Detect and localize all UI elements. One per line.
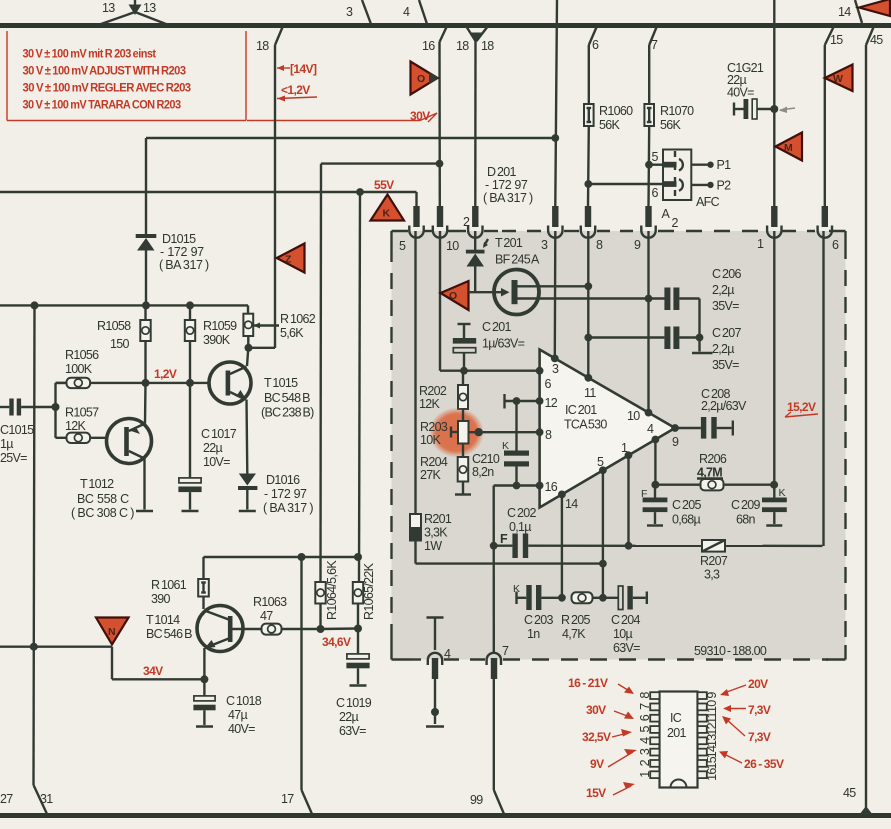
svg-text:R1064/5,6K: R1064/5,6K: [325, 560, 339, 620]
svg-text:C 1019: C 1019: [336, 696, 372, 710]
svg-text:C 203: C 203: [524, 613, 554, 627]
orange highlight blob at R203: [429, 408, 484, 458]
svg-text:2,2µ: 2,2µ: [712, 342, 734, 356]
svg-text:R1060: R1060: [599, 104, 633, 118]
svg-text:R1058: R1058: [97, 319, 131, 333]
wire 45 right edge: [843, 26, 883, 815]
svg-text:6: 6: [545, 377, 552, 391]
svg-text:R202: R202: [419, 384, 447, 398]
svg-text:63V=: 63V=: [339, 724, 366, 738]
C210: [472, 401, 529, 489]
svg-text:TCA 530: TCA 530: [564, 418, 607, 432]
svg-text:18: 18: [481, 39, 494, 53]
DIP pin numbers right 9..16: [705, 692, 719, 781]
AFC switch: [588, 150, 731, 231]
svg-text:7: 7: [651, 38, 658, 52]
svg-text:N: N: [108, 626, 115, 638]
svg-text:12: 12: [705, 722, 719, 735]
15,2V label: [785, 400, 818, 417]
svg-text:P1: P1: [717, 158, 732, 172]
svg-text:35V=: 35V=: [712, 299, 739, 313]
svg-text:C210: C210: [472, 452, 500, 466]
top bus line: [0, 23, 891, 28]
pin 1 wire down: [627, 455, 629, 545]
svg-text:R206: R206: [699, 452, 727, 466]
svg-text:1W: 1W: [424, 539, 442, 553]
R1062: [243, 305, 315, 347]
T1015 emitter wire: [245, 400, 248, 474]
svg-text:14: 14: [705, 745, 719, 758]
socket 10: [433, 206, 459, 253]
svg-text:R1057: R1057: [65, 406, 99, 420]
svg-text:7: 7: [638, 703, 652, 710]
svg-text:- 172 97: - 172 97: [160, 245, 204, 259]
wire 15 from top bus to socket 6: [825, 26, 843, 206]
svg-text:3: 3: [541, 238, 548, 252]
svg-text:2,2µ/63V: 2,2µ/63V: [701, 399, 747, 413]
svg-text:10: 10: [705, 700, 719, 713]
svg-text:(BC 238 B): (BC 238 B): [261, 406, 314, 420]
svg-text:BC 548 B: BC 548 B: [264, 391, 310, 405]
pin 8: [536, 428, 544, 436]
R1064: [315, 560, 339, 629]
svg-text:34,6V: 34,6V: [322, 635, 351, 649]
node 13/13 junction at top: [101, 0, 166, 24]
R206: [641, 452, 786, 500]
net line y=163.6 from R1064 branch to wire16: [321, 160, 444, 582]
svg-text:1: 1: [757, 237, 764, 251]
svg-text:5: 5: [638, 726, 652, 733]
svg-text:12K: 12K: [65, 419, 87, 433]
pin 10: [645, 409, 653, 417]
socket 7 (bottom): [487, 644, 509, 679]
svg-text:R1056: R1056: [65, 348, 99, 362]
svg-text:16: 16: [545, 480, 558, 494]
R1060: [584, 104, 633, 132]
svg-text:4: 4: [638, 737, 652, 744]
D201 label: [483, 165, 533, 205]
svg-text:D1016: D1016: [266, 473, 300, 487]
svg-text:K: K: [502, 440, 509, 452]
svg-text:45: 45: [870, 33, 883, 47]
svg-text:C 207: C 207: [712, 326, 742, 340]
marker triangle O (gate): [441, 281, 469, 310]
svg-text:K: K: [779, 487, 786, 499]
svg-text:14: 14: [838, 5, 851, 19]
C205: [643, 485, 702, 527]
R1056: [56, 348, 100, 407]
svg-text:56K: 56K: [660, 118, 682, 132]
net line R201 to pin5 wire: [416, 562, 603, 564]
svg-text:18: 18: [256, 39, 269, 53]
R207: [700, 540, 728, 582]
svg-text:C 204: C 204: [611, 613, 641, 627]
svg-text:7,3V: 7,3V: [748, 703, 771, 717]
shaded module box 59310-188.00 background: [392, 231, 846, 660]
svg-text:26 - 35V: 26 - 35V: [744, 757, 784, 771]
svg-text:IC 201: IC 201: [565, 403, 597, 417]
R202: [419, 371, 468, 411]
svg-text:R 1062: R 1062: [280, 312, 316, 326]
wire socket 10 down / gate branch: [440, 231, 540, 371]
svg-text:150: 150: [110, 337, 130, 351]
socket 4 (bottom): [428, 647, 451, 679]
svg-text:1n: 1n: [527, 627, 540, 641]
svg-text:R1065/22K: R1065/22K: [362, 562, 376, 620]
wire socket 1 into box: [773, 231, 775, 485]
C202 / F net: [494, 506, 823, 558]
T1012 labels: [71, 477, 134, 520]
svg-text:2: 2: [672, 216, 679, 230]
marker [14V]: [277, 62, 317, 76]
marker triangle W: [825, 65, 853, 92]
svg-text:4,7K: 4,7K: [562, 627, 586, 641]
svg-text:BC 558 C: BC 558 C: [77, 492, 129, 506]
svg-text:IC: IC: [670, 711, 682, 725]
svg-text:3: 3: [346, 5, 353, 19]
svg-text:201: 201: [667, 726, 687, 740]
svg-text:O: O: [417, 73, 425, 85]
wire socket4 terminal inside box: [427, 618, 444, 651]
svg-text:30 V ± 100 mV REGLER AVEC R203: 30 V ± 100 mV REGLER AVEC R203: [23, 81, 192, 95]
svg-text:<1,2V: <1,2V: [281, 83, 310, 97]
svg-text:( BA 317 ): ( BA 317 ): [483, 191, 533, 205]
svg-text:18: 18: [456, 39, 469, 53]
svg-text:10K: 10K: [420, 433, 442, 447]
socket 9: [634, 206, 656, 252]
marker triangle K (55V): [371, 195, 405, 221]
R201: [410, 231, 452, 564]
C207: [584, 326, 741, 372]
JFET T201: [494, 270, 665, 315]
svg-text:9: 9: [705, 692, 719, 699]
svg-text:6: 6: [832, 238, 839, 252]
svg-text:6: 6: [652, 186, 659, 200]
svg-text:56K: 56K: [599, 118, 621, 132]
DIP voltage labels right: [719, 677, 784, 771]
R1058: [97, 305, 151, 383]
R1059: [185, 305, 237, 383]
svg-text:16: 16: [422, 39, 435, 53]
diode D1015: [136, 232, 209, 305]
pin 9 apex: [671, 424, 679, 432]
svg-text:14: 14: [565, 497, 578, 511]
socket 5: [399, 206, 424, 253]
red instruction box: [7, 31, 437, 122]
socket 8: [581, 206, 603, 252]
svg-text:4: 4: [647, 422, 654, 436]
svg-text:- 172 97: - 172 97: [264, 487, 307, 501]
svg-text:R1070: R1070: [660, 104, 694, 118]
C1015: [0, 399, 60, 466]
svg-text:25V=: 25V=: [0, 451, 27, 465]
wire 3 vertical from image top to socket 3: [551, 0, 559, 206]
svg-text:1,2V: 1,2V: [154, 367, 177, 381]
net line 55V y=192: [0, 178, 417, 206]
svg-text:K: K: [513, 583, 520, 595]
transistor T1012: [107, 383, 154, 511]
svg-text:22µ: 22µ: [339, 710, 359, 724]
svg-text:W: W: [833, 73, 843, 85]
svg-text:C 1017: C 1017: [201, 427, 237, 441]
svg-text:35V=: 35V=: [712, 358, 739, 372]
svg-text:3,3: 3,3: [704, 568, 720, 582]
R1065: [353, 562, 376, 628]
wire socket 3 to pin 3: [554, 231, 557, 358]
C203: [513, 583, 566, 641]
svg-text:R1063: R1063: [253, 595, 287, 609]
pin 1: [625, 451, 633, 459]
svg-text:30 V ± 100 mV mit R 203 einst: 30 V ± 100 mV mit R 203 einst: [23, 47, 157, 61]
C201: [453, 320, 525, 375]
transistor T1014: [146, 606, 262, 652]
svg-text:30V: 30V: [410, 109, 430, 123]
svg-text:63V=: 63V=: [613, 641, 640, 655]
wire R1062 node to T1015 collector: [247, 348, 248, 366]
pin 12: [536, 397, 544, 405]
wire socket 8 to pin 11: [587, 231, 589, 378]
module box dashed border: [392, 231, 846, 660]
svg-text:12: 12: [545, 396, 558, 410]
svg-text:K: K: [383, 208, 391, 220]
C1G21: [727, 61, 795, 119]
bottom bus line: [0, 813, 891, 818]
svg-text:16 - 21V: 16 - 21V: [568, 676, 608, 690]
pin 16 wire to socket 7: [490, 486, 540, 653]
C204: [603, 586, 647, 655]
svg-text:45: 45: [843, 786, 856, 800]
wire R1070 to socket 9: [645, 126, 653, 206]
pin 11: [584, 374, 592, 382]
svg-text:( BC 308 C ): ( BC 308 C ): [71, 506, 134, 520]
svg-text:27: 27: [0, 792, 13, 806]
wire socket7 down to bus 99: [470, 679, 504, 814]
pin 5: [599, 466, 607, 474]
DIP pin numbers left 8..1: [638, 692, 652, 778]
1,2V rail: [56, 367, 210, 387]
C1018: [193, 679, 261, 736]
C206: [664, 267, 741, 338]
svg-text:BC 546 B: BC 546 B: [146, 627, 192, 641]
svg-text:1: 1: [638, 771, 652, 778]
DIP package IC201 pinout diagram: [660, 692, 698, 788]
svg-text:1µ: 1µ: [0, 437, 13, 451]
svg-text:47: 47: [260, 609, 273, 623]
svg-text:390K: 390K: [203, 333, 231, 347]
pin 6: [536, 367, 544, 375]
svg-text:2: 2: [463, 215, 470, 229]
svg-text:40V=: 40V=: [727, 86, 754, 100]
svg-text:8: 8: [545, 428, 552, 442]
svg-text:15V: 15V: [586, 786, 606, 800]
svg-text:2,2µ: 2,2µ: [712, 283, 734, 297]
R1057: [56, 406, 108, 444]
net line 30V horizontal y=138: [146, 137, 555, 139]
svg-text:9: 9: [672, 435, 679, 449]
svg-text:D 201: D 201: [487, 165, 517, 179]
R1063: [253, 595, 321, 635]
svg-text:10: 10: [446, 239, 459, 253]
pin 16: [536, 482, 544, 490]
svg-text:34V: 34V: [143, 664, 163, 678]
op-amp IC201 TCA530 triangle: [536, 350, 679, 512]
DIP pins left: [650, 692, 659, 778]
R1061: [151, 557, 209, 609]
svg-text:30V: 30V: [586, 703, 606, 717]
svg-text:100K: 100K: [65, 362, 93, 376]
svg-text:31: 31: [40, 792, 53, 806]
svg-text:32,5V: 32,5V: [582, 730, 611, 744]
svg-text:2: 2: [638, 759, 652, 766]
marker <1,2V: [277, 83, 317, 102]
svg-text:17: 17: [281, 792, 294, 806]
wire 16 / 30V from top bus: [410, 26, 447, 206]
corner down to D1015: [145, 138, 147, 234]
34V net from left: [0, 643, 208, 684]
svg-text:59310 - 188.00: 59310 - 188.00: [694, 644, 767, 658]
svg-text:22µ: 22µ: [203, 441, 223, 455]
svg-text:4: 4: [403, 5, 410, 19]
svg-text:R1059: R1059: [203, 319, 237, 333]
svg-text:5: 5: [652, 150, 659, 164]
svg-text:AFC: AFC: [696, 195, 720, 209]
wire 17 long vertical: [281, 557, 312, 814]
C1019: [336, 629, 372, 739]
wire 18 into R1062 node: [245, 344, 276, 352]
svg-text:11: 11: [584, 386, 596, 400]
wire R1065 column top: [359, 192, 360, 582]
svg-text:C 202: C 202: [507, 506, 537, 520]
wire socket4 below to stub: [426, 679, 444, 727]
socket 1: [757, 206, 782, 251]
gate wire into T201: [469, 291, 508, 293]
svg-text:40V=: 40V=: [228, 722, 255, 736]
svg-text:C1015: C1015: [0, 423, 34, 437]
svg-text:99: 99: [470, 793, 483, 807]
wire 1 vertical from image top to socket 1: [773, 0, 775, 206]
R203 trimmer: [420, 409, 540, 447]
wire socket 2 to D201: [474, 231, 476, 250]
R204: [420, 444, 471, 495]
svg-text:3: 3: [638, 748, 652, 755]
svg-text:13: 13: [705, 734, 719, 747]
svg-text:10µ: 10µ: [613, 627, 633, 641]
svg-text:D1015: D1015: [162, 232, 196, 246]
svg-text:T 1014: T 1014: [146, 613, 180, 627]
svg-text:F: F: [500, 532, 508, 546]
svg-text:1µ/63V=: 1µ/63V=: [482, 337, 525, 351]
svg-text:30 V ± 100 mV ADJUST WITH R203: 30 V ± 100 mV ADJUST WITH R203: [23, 64, 187, 78]
svg-text:5: 5: [399, 239, 406, 253]
svg-text:13: 13: [143, 1, 156, 15]
svg-text:7,3V: 7,3V: [748, 730, 771, 744]
svg-text:8: 8: [596, 238, 603, 252]
svg-text:47µ: 47µ: [228, 708, 248, 722]
wire 6 from top bus to R1060: [589, 26, 599, 105]
socket 2: [463, 206, 488, 248]
svg-text:10V=: 10V=: [203, 455, 230, 469]
marker triangle top-right corner: [859, 0, 890, 16]
node 14 feed at top right: [838, 0, 862, 23]
wire 7 from top bus to R1070: [649, 26, 658, 105]
svg-text:R 205: R 205: [561, 613, 591, 627]
svg-text:BF 245 A: BF 245 A: [495, 253, 540, 267]
svg-text:[14V]: [14V]: [290, 62, 317, 76]
svg-text:15,2V: 15,2V: [787, 400, 816, 414]
svg-text:15: 15: [830, 33, 843, 47]
marker triangle Z: [277, 244, 305, 273]
pin 12 stub: [505, 394, 540, 409]
svg-text:3,3K: 3,3K: [424, 526, 448, 540]
wire socket 6 into box to R207 line: [822, 231, 824, 546]
svg-text:27K: 27K: [420, 468, 442, 482]
DIP pins right: [698, 692, 707, 778]
T1014 emitter wire: [203, 648, 205, 679]
svg-text:30 V ± 100 mV TARARA CON R203: 30 V ± 100 mV TARARA CON R203: [23, 98, 182, 112]
svg-text:C 209: C 209: [731, 498, 761, 512]
svg-text:R204: R204: [420, 455, 448, 469]
svg-text:15: 15: [705, 756, 719, 769]
svg-text:( BA 317 ): ( BA 317 ): [263, 501, 313, 515]
R205: [561, 592, 607, 641]
socket 3: [541, 206, 563, 252]
DIP voltage labels left: [568, 676, 637, 800]
T201 label: [495, 236, 540, 267]
svg-text:8: 8: [638, 692, 652, 699]
svg-text:T 201: T 201: [495, 236, 523, 250]
svg-text:0,68µ: 0,68µ: [672, 513, 701, 527]
34,6V net: [317, 625, 363, 650]
svg-text:( BA 317 ): ( BA 317 ): [159, 258, 209, 272]
svg-text:T 1015: T 1015: [264, 376, 298, 390]
svg-text:R 1061: R 1061: [151, 578, 187, 592]
svg-text:7: 7: [502, 644, 509, 658]
svg-text:6: 6: [638, 714, 652, 721]
pin 3: [551, 355, 559, 363]
socket 6: [818, 206, 839, 252]
svg-text:T 1012: T 1012: [80, 477, 114, 491]
svg-text:M: M: [784, 142, 793, 154]
svg-text:0,1µ: 0,1µ: [509, 520, 531, 534]
wire 18-18 pair from top bus: [456, 26, 494, 206]
diode D1016: [238, 473, 313, 515]
wire socket 9 to pin 10: [647, 231, 649, 413]
marker triangle O at wire 16: [411, 62, 439, 95]
node 4 feed at top: [403, 0, 427, 24]
svg-text:C 201: C 201: [482, 320, 512, 334]
svg-text:20V: 20V: [748, 677, 768, 691]
wire 18 (left) from top bus: [256, 26, 283, 348]
node 3 feed at top: [346, 0, 371, 24]
svg-text:C 206: C 206: [712, 267, 742, 281]
svg-text:6: 6: [592, 38, 599, 52]
svg-text:390: 390: [151, 592, 171, 606]
wire R1060 to socket 8: [584, 126, 592, 206]
pin 14 wire down: [561, 494, 563, 597]
svg-text:55V: 55V: [374, 178, 394, 192]
svg-text:68n: 68n: [736, 513, 756, 527]
pin 5 wire down: [599, 470, 607, 598]
svg-text:1: 1: [621, 441, 628, 455]
C208: [675, 387, 747, 439]
svg-text:P2: P2: [717, 179, 732, 193]
svg-text:C 1018: C 1018: [226, 694, 262, 708]
svg-text:16: 16: [705, 768, 719, 781]
C209: [731, 485, 787, 527]
transistor T1015: [209, 362, 314, 420]
C1017: [178, 383, 236, 511]
svg-text:O: O: [449, 290, 457, 302]
